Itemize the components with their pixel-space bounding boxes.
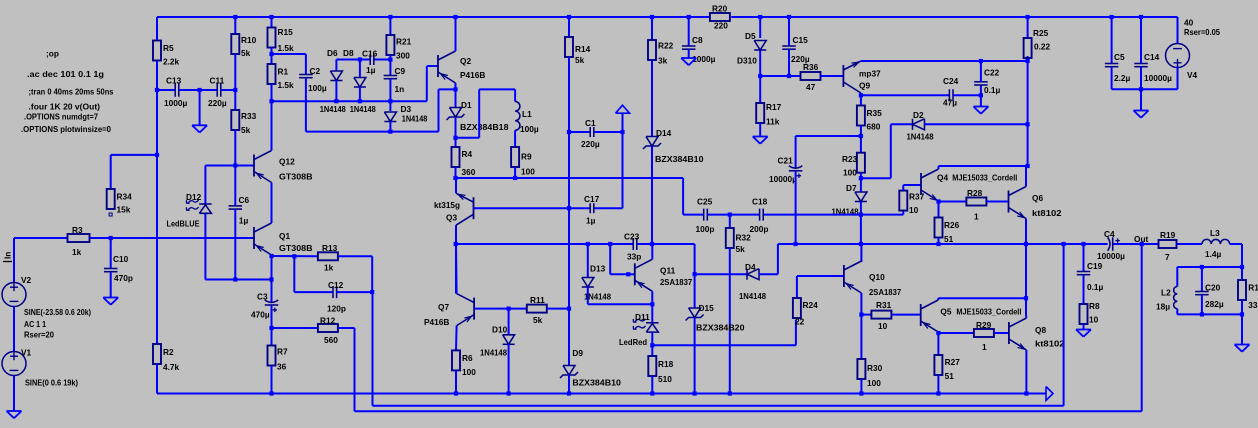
wire R14 top lead bbox=[568, 17, 570, 37]
svg-text:1N4148: 1N4148 bbox=[350, 104, 376, 114]
svg-text:1k: 1k bbox=[324, 263, 334, 273]
wire C3 bottom lead bbox=[271, 305, 273, 328]
port arrow bottom rail bbox=[1046, 387, 1053, 401]
resistor R1 bbox=[268, 64, 295, 90]
svg-text:D6: D6 bbox=[327, 48, 338, 58]
wire R9 bottom lead bbox=[514, 167, 516, 178]
svg-text:11k: 11k bbox=[766, 117, 780, 127]
svg-text:300: 300 bbox=[396, 51, 410, 61]
svg-text:R6: R6 bbox=[462, 353, 473, 363]
junction R15/R1/C2 bbox=[269, 52, 273, 56]
wire C14 bottom lead bbox=[1140, 67, 1142, 90]
transistor Q2 bbox=[438, 51, 485, 83]
resistor R27 bbox=[934, 355, 960, 381]
resistor R13 bbox=[318, 243, 338, 273]
junction R30 / bottom rail bbox=[859, 391, 863, 395]
svg-text:22: 22 bbox=[795, 317, 805, 327]
junction top rail / R15 bbox=[269, 15, 273, 19]
svg-text:P416B: P416B bbox=[424, 317, 449, 327]
resistor R7 bbox=[268, 346, 288, 372]
wire L3 to corner bbox=[1230, 243, 1242, 245]
wire C19 bottom lead bbox=[1083, 275, 1085, 304]
svg-text:5k: 5k bbox=[736, 244, 746, 254]
wire D4 row north link bbox=[694, 244, 696, 274]
capacitor C8 bbox=[682, 35, 716, 64]
wire input row west bbox=[14, 237, 68, 239]
svg-text:R32: R32 bbox=[736, 233, 752, 243]
zener D14 bbox=[643, 128, 704, 164]
wire output column rail to Q8 bbox=[1025, 244, 1027, 315]
wire R10 top lead bbox=[234, 17, 236, 34]
wire flag stem bbox=[622, 113, 624, 132]
wire Q3 collector down bbox=[455, 225, 457, 244]
svg-text:R20: R20 bbox=[712, 4, 728, 14]
transistor Q6 bbox=[1009, 187, 1062, 219]
svg-text:L2: L2 bbox=[1161, 288, 1171, 298]
svg-text:R21: R21 bbox=[396, 37, 412, 47]
wire R35 bottom lead bbox=[860, 126, 862, 137]
junction zobel top / C20 bbox=[1200, 265, 1204, 269]
wire D7 bottom lead bbox=[860, 202, 862, 215]
diode D13 bbox=[582, 264, 612, 302]
junction C22 top / Q9 collector wire bbox=[979, 59, 983, 63]
svg-text:Q10: Q10 bbox=[869, 272, 885, 282]
resistor R24 bbox=[793, 298, 818, 327]
wire D1 top lead bbox=[455, 89, 457, 107]
resistor R37 bbox=[899, 191, 924, 215]
svg-text:C11: C11 bbox=[210, 76, 225, 86]
svg-text:;op: ;op bbox=[46, 49, 59, 59]
svg-text:R35: R35 bbox=[867, 108, 883, 118]
directive .options numdgt bbox=[24, 112, 98, 122]
svg-text:5k: 5k bbox=[575, 55, 585, 65]
junction Q5 emitter / R29 / R27 bbox=[936, 331, 940, 335]
resistor R25 bbox=[1024, 28, 1051, 58]
junction top rail / R25 bbox=[1026, 15, 1030, 19]
svg-text:1N4148: 1N4148 bbox=[739, 291, 766, 301]
junction D15 / bottom rail bbox=[693, 391, 697, 395]
wire R2 column bbox=[156, 155, 158, 344]
junction R7 / bottom rail bbox=[269, 391, 273, 395]
junction D1 / R4 / L1 link bbox=[453, 136, 457, 140]
wire Q11 emitter down bbox=[651, 291, 653, 304]
capacitor C14 bbox=[1134, 52, 1172, 83]
junction D10 / bottom rail bbox=[507, 391, 511, 395]
svg-text:100: 100 bbox=[843, 167, 857, 177]
svg-text:C5: C5 bbox=[1114, 52, 1125, 62]
svg-text:R12: R12 bbox=[320, 315, 336, 325]
wire zobel bottom bbox=[1177, 313, 1242, 315]
svg-text:0.22: 0.22 bbox=[1034, 42, 1051, 52]
wire D4 row west bbox=[695, 273, 748, 275]
svg-text:Q7: Q7 bbox=[438, 302, 449, 312]
wire C1 right lead bbox=[594, 131, 623, 133]
junction bypass row / C6 bbox=[233, 277, 237, 281]
junction C3 / R12 row / R7 bbox=[269, 326, 273, 330]
wire R1 bottom lead bbox=[271, 84, 273, 101]
resistor R14 bbox=[565, 37, 591, 65]
junction R25 / Q9 collector wire bbox=[1026, 59, 1030, 63]
svg-text:R4: R4 bbox=[462, 149, 473, 159]
svg-text:10000µ: 10000µ bbox=[769, 174, 797, 184]
svg-text:L1: L1 bbox=[522, 109, 532, 119]
wire bottom line3 bbox=[355, 410, 1142, 412]
junction C9 / D3 / diode row bbox=[388, 99, 392, 103]
wire line2 riser at 372 bbox=[372, 292, 374, 406]
wire R6 bottom lead bbox=[455, 370, 457, 393]
junction R5 bottom / C13 bbox=[155, 88, 159, 92]
ground under C8 bbox=[681, 58, 696, 65]
wire C15 top lead bbox=[788, 17, 790, 46]
wire Q9 emitter stub bbox=[860, 93, 862, 95]
junction C25-C18 / R32 bbox=[728, 213, 732, 217]
wire C12 row east bbox=[337, 291, 373, 293]
svg-text:C1: C1 bbox=[585, 118, 596, 128]
wire R33 bottom to Q12 base row bbox=[234, 130, 236, 166]
junction zobel bottom / C20 bbox=[1200, 312, 1204, 316]
junction column / Q4 collector / Q6 collector bbox=[1026, 164, 1030, 168]
svg-text:C14: C14 bbox=[1144, 52, 1160, 62]
wire R15 top lead bbox=[271, 17, 273, 28]
svg-text:5k: 5k bbox=[241, 125, 251, 135]
wire D11 bottom lead bbox=[651, 332, 653, 345]
wire R25 top lead bbox=[1027, 17, 1029, 38]
wire link up bbox=[478, 89, 480, 137]
svg-text:Q4: Q4 bbox=[937, 173, 948, 183]
wire R13 east lead bbox=[338, 255, 372, 257]
svg-text:C16: C16 bbox=[362, 48, 378, 58]
wire Q4 collector east bbox=[939, 165, 1028, 167]
junction R5col / R34 / R2 bbox=[155, 153, 159, 157]
wire C25 row west bbox=[683, 214, 704, 216]
svg-text:D12: D12 bbox=[186, 192, 202, 202]
svg-text:R7: R7 bbox=[277, 346, 288, 356]
junction output rail / Q10 collector column bbox=[859, 242, 863, 246]
svg-text:C4: C4 bbox=[1104, 229, 1115, 239]
wire Q2 emitter to D1 bbox=[455, 83, 457, 89]
wire D11 top lead bbox=[651, 304, 653, 323]
svg-text:5k: 5k bbox=[533, 315, 543, 325]
diode D7 bbox=[832, 183, 867, 217]
svg-text:33: 33 bbox=[1248, 300, 1258, 310]
wire Q3/Q7 column bbox=[455, 244, 457, 294]
wire R37 top to Q4 base bbox=[903, 184, 921, 186]
svg-text:C23: C23 bbox=[624, 231, 640, 241]
wire R19 to L3 bbox=[1177, 243, 1203, 245]
svg-text:D8: D8 bbox=[343, 48, 354, 58]
wire C21 row west bbox=[796, 135, 861, 137]
wire R14 column down 2 bbox=[568, 132, 570, 208]
svg-text:15k: 15k bbox=[117, 205, 131, 215]
diode D6 bbox=[320, 48, 346, 114]
transistor Q12 bbox=[254, 151, 313, 183]
wire Q6 emitter down bbox=[1025, 219, 1027, 245]
svg-text:.OPTIONS plotwinsize=0: .OPTIONS plotwinsize=0 bbox=[21, 124, 111, 134]
svg-text:C9: C9 bbox=[395, 66, 406, 76]
junction top rail / R14 bbox=[567, 15, 571, 19]
junction Out node bbox=[1140, 242, 1144, 246]
wire R2 bottom lead bbox=[156, 364, 158, 394]
wire D15 top lead bbox=[694, 274, 696, 308]
svg-text:R8: R8 bbox=[1089, 301, 1100, 311]
inductor L2 bbox=[1156, 287, 1177, 312]
wire C8 ground stem bbox=[688, 49, 690, 58]
junction D11 / R18 / R24 row bbox=[650, 343, 654, 347]
junction top rail / C8 bbox=[687, 15, 691, 19]
wire R30 bottom lead bbox=[860, 379, 862, 394]
wire emitter node west bbox=[439, 88, 456, 90]
svg-text:C8: C8 bbox=[692, 35, 703, 45]
wire C10 ground stem bbox=[110, 272, 112, 298]
junction bypass row / emitter column bbox=[269, 277, 273, 281]
wire Q11 base link east bbox=[610, 273, 628, 275]
wire Q12 collector up bbox=[271, 101, 273, 150]
wire R5 bottom to C13 row bbox=[156, 61, 158, 91]
transistor Q8 bbox=[1009, 318, 1065, 350]
wire output rail bbox=[778, 243, 1108, 245]
wire R4 top lead bbox=[455, 138, 457, 147]
svg-text:R16: R16 bbox=[1248, 282, 1258, 292]
junction output rail / Q6-Q8 column bbox=[1024, 242, 1028, 246]
wire Q1 emitter down bbox=[271, 255, 273, 280]
svg-text:R19: R19 bbox=[1160, 230, 1176, 240]
wire C13 to ground stem node bbox=[179, 89, 218, 91]
wire C19 top lead bbox=[1083, 244, 1085, 272]
svg-text:220µ: 220µ bbox=[581, 139, 600, 149]
junction Q8 emitter / bottom rail bbox=[1024, 391, 1028, 395]
wire R18 bottom lead bbox=[651, 376, 653, 394]
junction D6 / diode row bbox=[334, 99, 338, 103]
diode D5 D310 bbox=[737, 31, 766, 66]
svg-text:2SA1837: 2SA1837 bbox=[660, 277, 693, 287]
wire D10 bottom lead bbox=[508, 344, 510, 393]
wire C5 bottom lead bbox=[1111, 67, 1113, 90]
wire rail left segment bbox=[456, 243, 634, 245]
resistor R2 bbox=[153, 344, 180, 372]
wire input corner down bbox=[13, 238, 15, 283]
wire D13 bottom lead bbox=[587, 287, 589, 304]
junction Q5 collector / output column bbox=[1024, 296, 1028, 300]
wire Q10 collector bbox=[860, 244, 862, 262]
svg-text:R14: R14 bbox=[575, 44, 591, 54]
capacitor C22 bbox=[974, 68, 1000, 96]
wire R14 column down 3 bbox=[568, 208, 570, 308]
svg-text:100p: 100p bbox=[696, 224, 715, 234]
junction R13 column / C12 bbox=[370, 290, 374, 294]
wire C9 bottom lead bbox=[389, 79, 391, 102]
ground under R8 bbox=[1076, 330, 1091, 337]
svg-text:kt315g: kt315g bbox=[434, 200, 460, 210]
wire D8 top lead bbox=[359, 60, 361, 77]
junction Q1 emitter node bbox=[269, 254, 273, 258]
junction Q10 emitter / R31 / R30 bbox=[859, 313, 863, 317]
transistor Q11 bbox=[635, 259, 693, 291]
svg-text:470µ: 470µ bbox=[251, 310, 270, 320]
svg-text:D4: D4 bbox=[745, 262, 756, 272]
capacitor C6 bbox=[229, 195, 250, 226]
wire D12 top lead bbox=[204, 166, 206, 205]
wire ground stem under C13/C11 row bbox=[199, 90, 201, 125]
resistor R9 bbox=[511, 147, 535, 177]
wire D2 link up bbox=[890, 124, 892, 178]
svg-text:0.1µ: 0.1µ bbox=[984, 85, 1001, 95]
svg-text:D13: D13 bbox=[590, 264, 606, 274]
wire V2 to V1 bbox=[13, 306, 15, 352]
wire R11 east lead bbox=[547, 308, 569, 310]
resistor R35 bbox=[857, 106, 882, 132]
wire Q9 collector east bbox=[861, 60, 1028, 62]
inductor L3 bbox=[1202, 228, 1230, 259]
svg-text:C18: C18 bbox=[752, 197, 768, 207]
svg-text:D10: D10 bbox=[492, 324, 508, 334]
svg-text:R26: R26 bbox=[944, 220, 960, 230]
capacitor C25 bbox=[696, 197, 715, 235]
wire bottom line2 bbox=[373, 405, 1064, 407]
svg-text:40: 40 bbox=[1184, 18, 1194, 28]
svg-text:kt8102: kt8102 bbox=[1035, 338, 1065, 348]
svg-text:Q9: Q9 bbox=[859, 81, 870, 91]
svg-text:D5: D5 bbox=[745, 31, 756, 41]
svg-text:1N4148: 1N4148 bbox=[480, 348, 507, 358]
svg-text:36: 36 bbox=[277, 361, 287, 371]
junction R11 row / D10 bbox=[507, 307, 511, 311]
resistor R8 bbox=[1080, 301, 1100, 325]
svg-text:In: In bbox=[3, 252, 13, 259]
svg-text:R34: R34 bbox=[117, 192, 133, 202]
wire C5 top lead bbox=[1111, 17, 1113, 64]
wire R25 bottom lead bbox=[1027, 56, 1029, 61]
wire R27 bottom lead bbox=[937, 375, 939, 394]
wire R5 column top bbox=[156, 17, 158, 41]
junction zobel bottom / R16 bbox=[1240, 312, 1244, 316]
wire row corner down to C25 row bbox=[682, 178, 684, 215]
LED D12 LedBLUE bbox=[167, 192, 212, 229]
wire D2 link east bbox=[861, 177, 891, 179]
svg-text:C17: C17 bbox=[584, 194, 600, 204]
capacitor C16 bbox=[362, 48, 378, 75]
wire R1 top lead bbox=[271, 54, 273, 64]
junction D8 top / C16 row bbox=[358, 57, 362, 61]
wire Q5 emitter stub bbox=[937, 332, 939, 333]
wire R23 bottom lead bbox=[860, 173, 862, 179]
wire R22 top lead bbox=[651, 17, 653, 40]
wire R12 west lead bbox=[272, 327, 318, 329]
junction R18 / bottom rail bbox=[650, 391, 654, 395]
wire emitter bypass row bbox=[205, 279, 271, 281]
voltage source V2 bbox=[2, 275, 91, 340]
junction R6 / bottom rail bbox=[454, 391, 458, 395]
svg-text:R9: R9 bbox=[521, 152, 532, 162]
resistor R29 bbox=[974, 320, 994, 352]
junction R27 / bottom rail bbox=[936, 391, 940, 395]
wire bottom rail bbox=[157, 393, 1046, 395]
wire L2 bottom lead bbox=[1176, 309, 1178, 315]
wire R21 bottom lead bbox=[389, 55, 391, 60]
wire emitter column to C3 bbox=[271, 280, 273, 303]
transistor Q1 bbox=[254, 223, 313, 255]
wire Q12 emitter to Q1 collector bbox=[271, 183, 273, 224]
svg-text:BZX384B20: BZX384B20 bbox=[696, 323, 745, 333]
svg-text:10: 10 bbox=[909, 205, 919, 215]
svg-text:R33: R33 bbox=[241, 111, 257, 121]
wire D6 bottom lead bbox=[335, 81, 337, 102]
wire C1 left lead bbox=[569, 131, 590, 133]
svg-text:D3: D3 bbox=[401, 104, 412, 114]
wire C6 top lead bbox=[234, 166, 236, 206]
wire C16 row bbox=[336, 59, 370, 61]
capacitor C24 bbox=[943, 76, 959, 108]
svg-text:1N4148: 1N4148 bbox=[907, 132, 934, 142]
wire R17 top lead bbox=[759, 76, 761, 103]
capacitor C11 bbox=[208, 76, 227, 109]
svg-text:C12: C12 bbox=[328, 280, 344, 290]
junction top rail / C15 bbox=[787, 15, 791, 19]
svg-text:1µ: 1µ bbox=[366, 65, 376, 75]
junction R13 left / C12 column bbox=[292, 254, 296, 258]
wire R16 bottom lead bbox=[1241, 300, 1243, 314]
svg-text:1000µ: 1000µ bbox=[164, 98, 187, 108]
resistor R3 bbox=[68, 225, 90, 257]
resistor R5 bbox=[153, 41, 180, 67]
svg-text:R3: R3 bbox=[72, 225, 83, 235]
wire R27 top lead bbox=[937, 333, 939, 355]
resistor R12 bbox=[318, 315, 338, 345]
transistor Q5 bbox=[921, 300, 1022, 332]
svg-text:BZX384B10: BZX384B10 bbox=[655, 154, 704, 164]
wire R3 to Q1 base bbox=[90, 237, 255, 239]
svg-text:220: 220 bbox=[714, 21, 728, 31]
wire C22 bottom lead bbox=[980, 85, 982, 95]
wire R33 top lead bbox=[234, 90, 236, 110]
svg-text:D2: D2 bbox=[913, 110, 924, 120]
wire C18 row east part bbox=[763, 214, 861, 216]
resistor R30 bbox=[857, 359, 882, 388]
svg-text:C2: C2 bbox=[310, 66, 321, 76]
wire Q2 base down bbox=[426, 66, 428, 101]
directive ;op bbox=[46, 49, 59, 59]
junction C24 / C22 / ground bbox=[979, 93, 983, 97]
svg-text:C22: C22 bbox=[984, 68, 1000, 78]
wire R21 top lead bbox=[389, 17, 391, 35]
svg-text:D11: D11 bbox=[635, 312, 650, 322]
svg-text:R22: R22 bbox=[658, 41, 674, 51]
wire Q8 emitter down bbox=[1025, 350, 1027, 394]
resistor R6 bbox=[452, 350, 476, 377]
junction top rail / Q2 collector bbox=[453, 15, 457, 19]
junction output rail / C19 bbox=[1081, 242, 1085, 246]
wire C14 top lead bbox=[1140, 17, 1142, 64]
svg-text:mp37: mp37 bbox=[859, 69, 881, 79]
svg-text:510: 510 bbox=[658, 374, 672, 384]
junction D8 / diode row bbox=[358, 99, 362, 103]
svg-text:47µ: 47µ bbox=[943, 98, 957, 108]
svg-text:10000µ: 10000µ bbox=[1144, 73, 1172, 83]
wire D13 top lead bbox=[587, 244, 589, 277]
wire R7 bottom lead bbox=[271, 366, 273, 394]
wire diode row R1 to Q2 base corner bbox=[272, 100, 427, 102]
junction top rail / R10 bbox=[233, 15, 237, 19]
resistor R34 bbox=[107, 189, 132, 215]
wire link east to L1 bbox=[479, 88, 515, 90]
open pin under R34 bbox=[109, 213, 112, 216]
capacitor C3 polarized bbox=[251, 292, 278, 320]
svg-text:GT308B: GT308B bbox=[279, 243, 313, 253]
junction C15 / R36 row bbox=[787, 74, 791, 78]
svg-text:R27: R27 bbox=[945, 357, 961, 367]
svg-text:282µ: 282µ bbox=[1205, 299, 1224, 309]
svg-text:51: 51 bbox=[944, 234, 954, 244]
svg-text:1N4148: 1N4148 bbox=[320, 104, 346, 114]
